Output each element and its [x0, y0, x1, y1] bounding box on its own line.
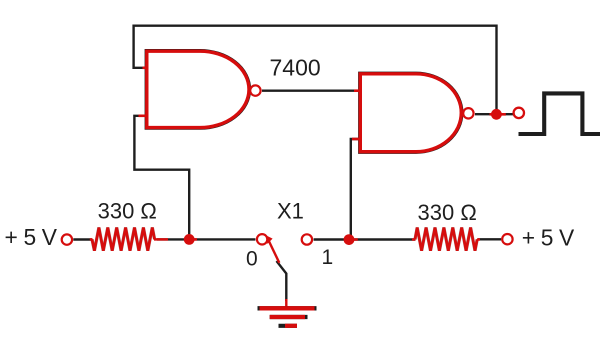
svg-text:1: 1 [322, 246, 334, 269]
svg-text:+ 5 V: + 5 V [522, 225, 575, 251]
svg-text:330 Ω: 330 Ω [98, 198, 157, 223]
svg-text:+ 5 V: + 5 V [5, 224, 58, 250]
svg-text:0: 0 [246, 248, 258, 271]
svg-text:7400: 7400 [270, 55, 321, 81]
svg-text:330 Ω: 330 Ω [418, 200, 477, 225]
svg-text:X1: X1 [277, 198, 304, 223]
